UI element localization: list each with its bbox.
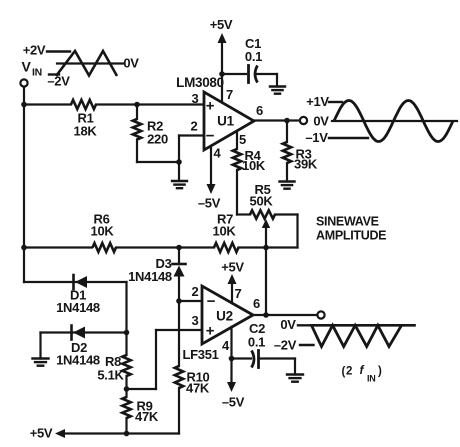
svg-text:–5V: –5V bbox=[222, 395, 245, 410]
svg-text:IN: IN bbox=[32, 67, 42, 79]
svg-text:+5V: +5V bbox=[30, 426, 53, 441]
svg-text:–2V: –2V bbox=[274, 338, 297, 353]
svg-text:7: 7 bbox=[226, 87, 233, 102]
svg-text:LM3080: LM3080 bbox=[176, 75, 224, 90]
svg-text:−: − bbox=[207, 293, 216, 310]
svg-text:10K: 10K bbox=[242, 158, 266, 173]
svg-text:+1V: +1V bbox=[306, 94, 329, 109]
svg-text:4: 4 bbox=[222, 338, 230, 353]
svg-text:): ) bbox=[378, 366, 382, 378]
svg-text:0.1: 0.1 bbox=[248, 335, 265, 350]
svg-text:+: + bbox=[206, 323, 215, 340]
svg-text:3: 3 bbox=[192, 91, 199, 106]
svg-text:5: 5 bbox=[239, 132, 246, 147]
svg-text:6: 6 bbox=[256, 103, 263, 118]
svg-text:220: 220 bbox=[147, 132, 168, 147]
svg-text:1N4148: 1N4148 bbox=[56, 300, 100, 315]
svg-text:50K: 50K bbox=[250, 194, 274, 209]
svg-text:–1V: –1V bbox=[305, 130, 328, 145]
svg-text:10K: 10K bbox=[91, 224, 115, 239]
svg-text:1N4148: 1N4148 bbox=[56, 353, 100, 368]
svg-text:+: + bbox=[206, 98, 215, 115]
svg-text:2: 2 bbox=[192, 284, 199, 299]
svg-text:0V: 0V bbox=[123, 56, 139, 71]
svg-text:1N4148: 1N4148 bbox=[128, 269, 172, 284]
svg-text:(: ( bbox=[342, 366, 346, 378]
svg-text:10K: 10K bbox=[213, 224, 237, 239]
svg-text:47K: 47K bbox=[186, 381, 210, 396]
svg-text:U1: U1 bbox=[217, 114, 234, 129]
svg-text:47K: 47K bbox=[135, 409, 159, 424]
svg-text:6: 6 bbox=[253, 296, 260, 311]
svg-text:V: V bbox=[21, 59, 31, 75]
svg-text:–5V: –5V bbox=[198, 196, 221, 211]
svg-text:0.1: 0.1 bbox=[245, 49, 262, 64]
svg-text:–2V: –2V bbox=[47, 74, 70, 89]
svg-text:2: 2 bbox=[191, 119, 198, 134]
svg-text:−: − bbox=[206, 128, 215, 145]
svg-text:+5V: +5V bbox=[210, 17, 233, 32]
svg-text:+5V: +5V bbox=[221, 260, 244, 275]
svg-text:LF351: LF351 bbox=[183, 347, 219, 362]
svg-text:7: 7 bbox=[235, 286, 242, 301]
svg-text:18K: 18K bbox=[74, 124, 98, 139]
svg-text:4: 4 bbox=[214, 146, 222, 161]
svg-text:AMPLITUDE: AMPLITUDE bbox=[316, 229, 386, 243]
svg-text:39K: 39K bbox=[294, 157, 318, 172]
svg-text:2: 2 bbox=[346, 366, 352, 378]
svg-text:3: 3 bbox=[192, 313, 199, 328]
svg-text:0V: 0V bbox=[313, 114, 329, 129]
svg-text:0V: 0V bbox=[280, 317, 296, 332]
svg-text:IN: IN bbox=[367, 374, 375, 384]
svg-text:SINEWAVE: SINEWAVE bbox=[316, 215, 379, 229]
svg-text:5.1K: 5.1K bbox=[97, 368, 124, 383]
svg-text:U2: U2 bbox=[216, 309, 233, 324]
svg-text:+2V: +2V bbox=[23, 43, 46, 58]
